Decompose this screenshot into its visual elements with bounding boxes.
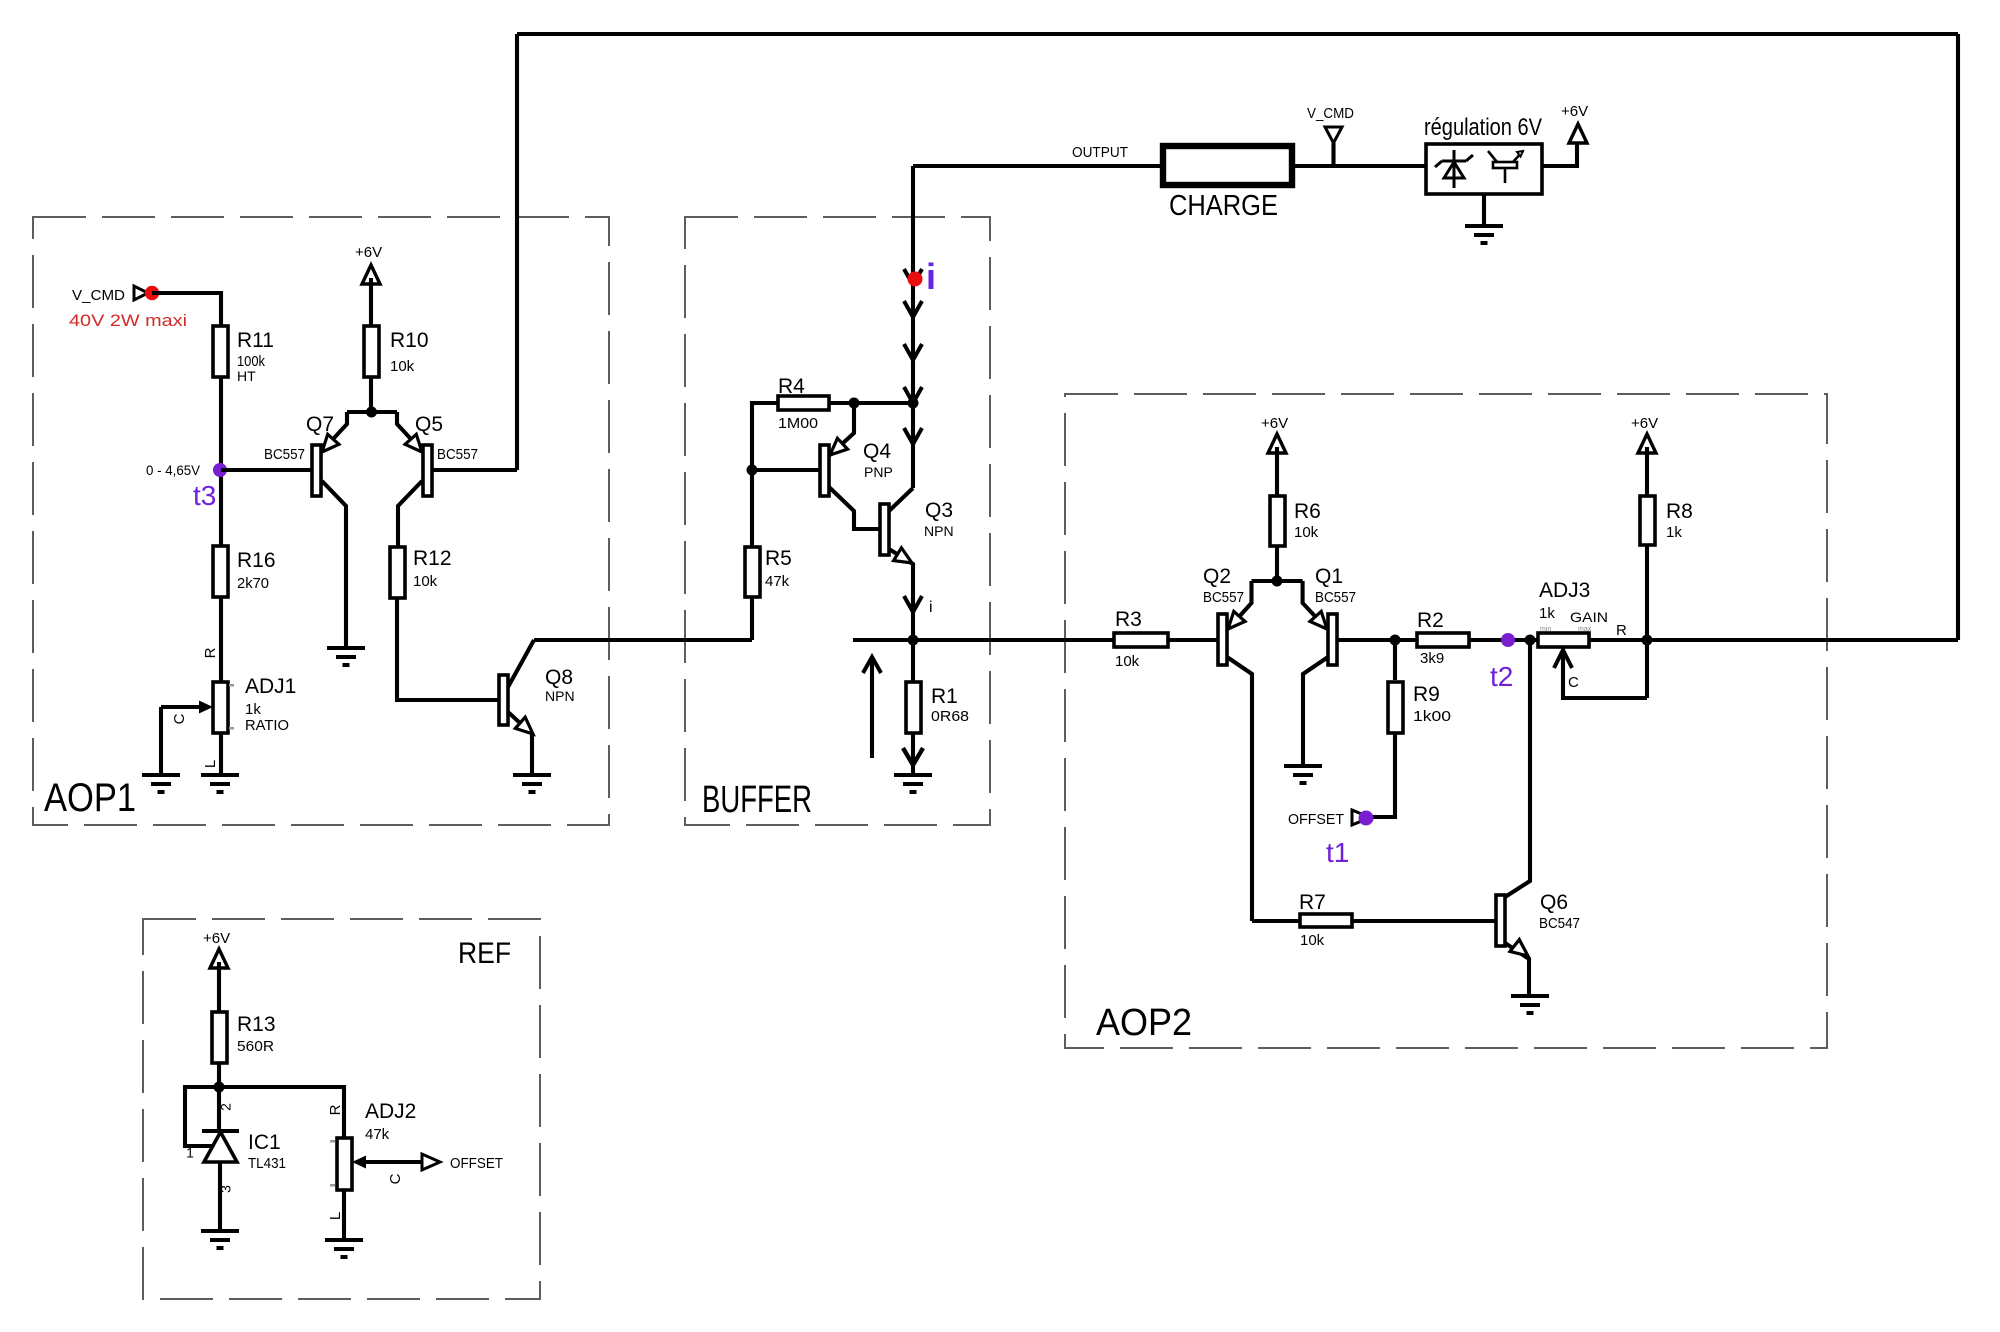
ground (Q7 collector) [327,648,365,665]
wire sense node to R3 [853,638,1114,642]
wire Q5 base to feedback [432,468,517,472]
wire R9 to OFFSET [1370,733,1395,817]
svg-text:PNP: PNP [864,464,893,480]
svg-text:ADJ2: ADJ2 [365,1100,416,1123]
svg-text:BC557: BC557 [1315,589,1356,606]
svg-text:R12: R12 [413,547,452,570]
svg-text:R11: R11 [237,329,274,352]
svg-text:R8: R8 [1666,500,1693,523]
wiper of ADJ2 [352,1156,366,1169]
junction R9 node [1390,635,1401,646]
svg-text:R5: R5 [765,547,792,570]
wire R4 left to Q4 base and R5 [752,403,820,470]
resistor R11 [213,326,228,377]
svg-text:V_CMD: V_CMD [1307,105,1354,122]
svg-text:2: 2 [218,1103,234,1111]
svg-text:OFFSET: OFFSET [450,1155,503,1172]
wire regulation to +6V [1542,143,1577,166]
SECTION: top [517,34,1958,640]
wire R12 to Q8 base [397,598,499,700]
resistor R2 [1417,633,1469,647]
resistor CHARGE [1163,146,1292,185]
svg-text:BC557: BC557 [437,446,478,463]
svg-text:min: min [1540,626,1551,633]
svg-text:REF: REF [458,937,511,970]
wire OUTPUT to CHARGE [913,164,1163,168]
junction R4/R5/Q4 base [747,465,758,476]
svg-text:OUTPUT: OUTPUT [1072,144,1128,161]
svg-text:Q5: Q5 [415,413,443,436]
svg-text:C: C [1568,674,1579,691]
svg-text:Q6: Q6 [1540,891,1568,914]
svg-text:V_CMD: V_CMD [72,287,125,304]
potentiometer ADJ2 [337,1138,352,1190]
svg-text:AOP2: AOP2 [1096,1002,1192,1044]
svg-text:R: R [202,647,219,658]
wire R10 to emitter rail [369,377,373,412]
resistor R16 [213,546,228,597]
svg-text:CHARGE: CHARGE [1169,190,1278,222]
svg-text:10k: 10k [1294,524,1319,541]
resistor R5 [745,547,760,597]
svg-text:OFFSET: OFFSET [1288,811,1344,828]
svg-text:47k: 47k [365,1126,390,1143]
svg-text:R1: R1 [931,685,958,708]
svg-text:NPN: NPN [924,523,954,539]
wire emitter rail Q7/Q5 [347,410,397,414]
svg-text:10k: 10k [390,358,415,375]
svg-text:10k: 10k [413,573,438,590]
svg-text:R10: R10 [390,329,429,352]
resistor R12 [390,547,405,598]
ground (Q6 emitter) [1511,996,1549,1013]
svg-text:i: i [929,599,933,616]
svg-text:R: R [327,1104,344,1115]
svg-text:R13: R13 [237,1013,276,1036]
node t1 [1359,811,1374,826]
transistor icon inside regulation block [1488,151,1523,183]
svg-text:1k: 1k [245,701,261,718]
svg-text:+6V: +6V [203,930,230,947]
wire right drop to AOP2 output node [1956,34,1960,640]
resistor R6 [1270,496,1285,546]
svg-text:R9: R9 [1413,683,1440,706]
svg-text:NPN: NPN [545,688,575,704]
wire node to ADJ2 [219,1087,344,1138]
IC IC1 TL431 [202,1129,239,1133]
svg-text:40V 2W maxi: 40V 2W maxi [69,311,187,330]
wire R1 to ground with arrow [911,733,915,775]
svg-text:3k9: 3k9 [1420,650,1444,667]
svg-text:R: R [1616,622,1627,639]
svg-text:R2: R2 [1417,609,1444,632]
svg-text:560R: 560R [237,1038,274,1055]
svg-text:1M00: 1M00 [778,415,818,432]
ground (ADJ1 bottom) [201,775,239,792]
svg-text:R16: R16 [237,549,276,572]
resistor R1 [906,682,921,733]
svg-text:C: C [171,713,188,724]
junction sense node [908,635,919,646]
svg-text:TL431: TL431 [248,1155,286,1172]
wire R4 right to current line [829,401,913,405]
svg-text:1k: 1k [1539,605,1555,622]
svg-text:IC1: IC1 [248,1131,281,1154]
node test point red dot on V_CMD [145,286,159,300]
svg-text:+6V: +6V [1561,103,1588,120]
wire R7 to Q6 base [1352,919,1496,923]
SECTION: aop2 [1096,415,1958,1044]
current arrow i at Q3 emitter [904,596,922,612]
svg-text:L: L [202,760,219,768]
node OFFSET output connector [422,1154,440,1170]
wire R11 to R16 (node t3) [219,377,223,546]
svg-text:ADJ3: ADJ3 [1539,579,1590,602]
zener diode inside regulation block [1435,150,1473,188]
wire R16 to ADJ1 [219,597,223,682]
ground (ADJ2) [325,1240,363,1257]
wire ADJ3 right to feedback [1589,638,1958,642]
svg-text:BUFFER: BUFFER [702,779,812,821]
current direction arrow up [870,658,874,758]
junction R13 node [214,1082,225,1093]
ground (R1) [894,775,932,792]
wire IC1 to ground [218,1162,222,1231]
wire ADJ1 wiper to ground [159,707,163,775]
ground (ADJ1 wiper) [142,775,180,792]
svg-text:HT: HT [237,368,256,384]
svg-text:1k00: 1k00 [1413,708,1451,725]
ground (Q8 emitter) [513,775,551,792]
wire emitter rail Q2/Q1 [1252,579,1303,583]
resistor R7 [1252,919,1300,923]
wire top feedback rail [517,32,1958,36]
svg-text:ADJ1: ADJ1 [245,675,296,698]
wire R5 leads [750,470,754,547]
svg-text:BC547: BC547 [1539,915,1580,932]
wire left drop to Q5 base [515,34,519,470]
svg-text:Q1: Q1 [1315,565,1343,588]
junction rail/R6 [1272,576,1283,587]
wire OUTPUT current line [911,166,915,488]
svg-text:47k: 47k [765,573,790,590]
ground (Q1 collector) [1284,766,1322,783]
ground (regulation) [1465,226,1503,243]
current arrows i [904,269,922,444]
svg-text:BC557: BC557 [1203,589,1244,606]
svg-text:t1: t1 [1326,837,1349,868]
wire R3 to Q2 base [1168,638,1218,642]
wire R1 top [911,640,915,682]
wiper of ADJ3 [1563,650,1647,698]
resistor R4 [778,396,829,410]
ground (IC1) [201,1231,239,1248]
wire R2 to ADJ3 [1469,638,1538,642]
svg-text:AOP1: AOP1 [44,776,136,820]
wire t3 to Q7 base [221,468,312,472]
svg-text:+6V: +6V [355,244,382,261]
svg-text:2k70: 2k70 [237,575,269,592]
SECTION: dashed boxes [33,217,1827,1299]
resistor R3 [1114,633,1168,647]
wire regulation to ground [1482,194,1486,226]
junction R4/Q4 emitter [849,398,860,409]
svg-text:R4: R4 [778,375,805,398]
resistor R10 [364,326,379,377]
potentiometer ADJ1 [213,682,228,733]
junction rail/R10 [366,407,377,418]
svg-text:Q3: Q3 [925,499,953,522]
svg-text:10k: 10k [1300,932,1325,949]
wire R6 to emitter rail [1275,546,1279,581]
svg-text:0R68: 0R68 [931,708,969,725]
wire ADJ2 to ground [342,1190,346,1240]
wire R8 to node [1645,545,1649,698]
SECTION: aop1 [44,244,752,820]
resistor R13 [212,1012,227,1063]
wire R13 to IC1 [217,1063,221,1131]
resistor R9 [1393,640,1397,680]
node test point red dot i [908,272,923,287]
svg-text:Q4: Q4 [863,440,891,463]
wiper of ADJ1 [161,705,201,709]
node t3 [213,463,227,477]
svg-text:GAIN: GAIN [1570,609,1608,625]
svg-text:max: max [1578,626,1592,633]
junction R8 node [1642,635,1653,646]
svg-text:+6V: +6V [1261,415,1288,432]
junction R4/current line [908,398,919,409]
svg-text:1k: 1k [1666,524,1682,541]
wire V_CMD to R11 [152,293,221,326]
junction Q6 collector node [1525,635,1536,646]
svg-text:10k: 10k [1115,653,1140,670]
svg-text:C: C [387,1173,404,1184]
svg-text:R6: R6 [1294,500,1321,523]
svg-text:Q2: Q2 [1203,565,1231,588]
svg-text:BC557: BC557 [264,446,305,463]
SECTION: buffer [702,166,1114,821]
node t2 [1501,633,1515,647]
svg-text:Q8: Q8 [545,666,573,689]
svg-text:R7: R7 [1299,891,1326,914]
SECTION: ref [185,930,511,1257]
wire ADJ1 to ground [219,733,223,775]
svg-text:L: L [327,1212,344,1220]
wire Q8 collector to R5 bottom [534,638,752,642]
svg-text:t2: t2 [1490,661,1513,692]
wire Q1 base to R2 [1337,638,1417,642]
svg-text:0 - 4,65V: 0 - 4,65V [146,462,201,478]
resistor R8 [1640,496,1655,545]
svg-text:+6V: +6V [1631,415,1658,432]
svg-text:i: i [926,256,936,297]
svg-text:régulation 6V: régulation 6V [1424,114,1542,141]
wire ref loop to pin 1 [185,1087,219,1146]
svg-text:Q7: Q7 [306,413,334,436]
wire CHARGE to regulation [1292,164,1426,168]
svg-text:R3: R3 [1115,608,1142,631]
svg-text:RATIO: RATIO [245,717,289,734]
svg-text:1: 1 [186,1145,194,1161]
svg-text:t3: t3 [193,480,216,511]
